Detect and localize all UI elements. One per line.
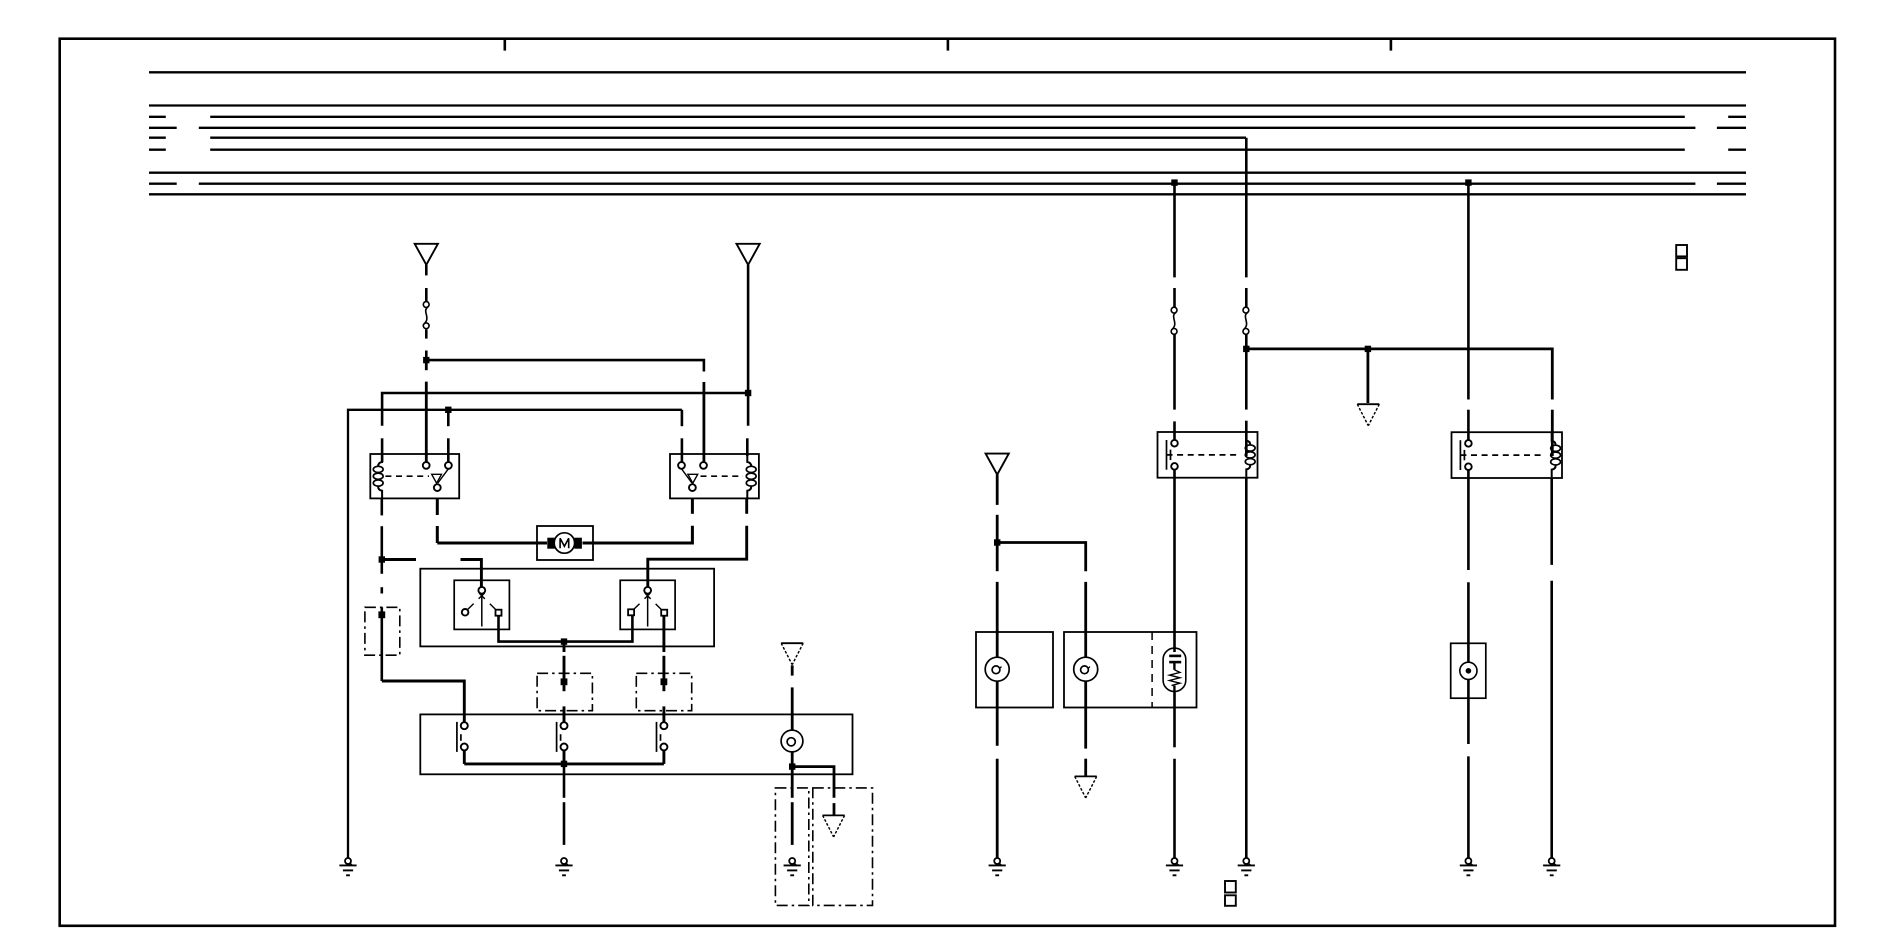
node park junction [561, 638, 567, 644]
ground G4 [989, 858, 1006, 875]
connector triangle T2 [737, 244, 760, 265]
wire junction down to relay1 common [425, 360, 428, 370]
washer level switch box [1451, 643, 1486, 698]
connector box B4 [775, 788, 808, 906]
washer switch SW3 [657, 722, 668, 752]
wire level switch to ground [1467, 680, 1470, 699]
wire coil1 to washer sw1 [382, 681, 465, 722]
fuse 2 [1171, 307, 1177, 334]
rear washer box [1064, 632, 1197, 708]
connector triangle T3 [781, 643, 803, 665]
page ref squares bottom [1225, 881, 1236, 893]
wire washer sw to ground [563, 764, 566, 798]
wire relay1 coil lead [381, 438, 384, 462]
frame tick 2 [947, 39, 950, 51]
wire T3 to intermittent lamp [791, 665, 794, 675]
bus row 8 [149, 183, 177, 185]
intermittent unit lamp [781, 730, 803, 752]
node bus tap U3 [1171, 179, 1177, 185]
washer switch SW1 [457, 722, 468, 752]
relay U1 contacts [423, 462, 430, 469]
washer switch bus [463, 751, 466, 764]
node washer feed junction [994, 539, 1000, 545]
ground G5 [1166, 858, 1183, 875]
relay U2 box [670, 454, 759, 498]
ground G2 [555, 858, 572, 875]
wire lamp down [791, 752, 794, 798]
front washer motor box [976, 632, 1053, 708]
bus row 1 [149, 71, 1746, 73]
connector triangle T4 [986, 454, 1009, 475]
node lamp junction [789, 763, 795, 769]
wire H2 relay coils feed [382, 393, 748, 426]
wire relay1 switch out [436, 498, 439, 515]
rear washer separator [1151, 632, 1153, 708]
motor M1 [554, 533, 574, 553]
relay U1 coil [373, 454, 383, 498]
relay U2 coil [746, 454, 756, 498]
wire U4 coil to ground [1550, 478, 1553, 565]
node washer bus junction [561, 761, 567, 767]
motor M1 box [537, 526, 593, 560]
relay U1 box [370, 454, 459, 498]
connector box B2 [537, 673, 592, 710]
wire bus to fuse F3 [1245, 138, 1248, 278]
node fuse1 junction [423, 357, 429, 363]
wire branch to front washer [997, 543, 1085, 572]
rear washer motor [1074, 657, 1098, 681]
wire bus to fuse F2 [1173, 184, 1176, 278]
wire park out [563, 642, 566, 652]
bus row 9 [149, 193, 1746, 195]
wire SW-B right out [662, 616, 665, 652]
wire T2 to relay2 coil [747, 265, 750, 426]
wire T4 down [996, 475, 999, 505]
ground G7 [1460, 858, 1477, 875]
wire H3 to relay2 NC [681, 410, 684, 426]
wire H3 to relay1 NC [447, 410, 450, 426]
relay U2 contacts [678, 462, 685, 469]
wire washer motor to ground [996, 681, 999, 707]
wire U4 to washer level switch [1467, 470, 1470, 570]
wire relay2 coil out [745, 498, 748, 513]
park switch SW-B [620, 580, 675, 629]
relay U3 box [1158, 432, 1258, 478]
connector arrow A2 [1075, 776, 1097, 798]
frame tick 1 [503, 39, 506, 51]
node F3 junction [1243, 346, 1249, 352]
connector B3 marker [661, 678, 668, 685]
washer level switch [1460, 662, 1477, 679]
wire junction to arrow A3 [1367, 349, 1370, 403]
wire H4 to relay U4 coil [1246, 349, 1552, 400]
wire fuse1 to junction [425, 329, 428, 338]
connector B1 marker [378, 611, 385, 618]
connector box B1 [365, 607, 400, 655]
wire to wiper switch common [382, 558, 416, 561]
fuse 1 lead [425, 265, 428, 276]
node H2-T2 junction [745, 390, 751, 396]
connector triangle T1 [415, 244, 438, 265]
wire F3 to relay U3 coil [1245, 334, 1248, 349]
wire relay1 coil out [380, 498, 383, 515]
bus row 4 [149, 127, 177, 129]
wire H1 to relay2 common [426, 360, 704, 371]
connector B2 marker [561, 678, 568, 685]
node H4 junction [1365, 346, 1371, 352]
front washer motor [985, 657, 1009, 681]
park switch internal wiring [499, 616, 633, 642]
wire F2 to relay U3 [1173, 334, 1176, 409]
wire U3 coil to ground [1245, 478, 1248, 859]
bus row 2 [149, 104, 1746, 106]
wire branch to arrow A1 [792, 767, 834, 798]
connector arrow A1 [823, 815, 845, 837]
thermal protector [1163, 648, 1186, 691]
washer switch box [420, 714, 852, 774]
wire bus to relay U4 [1467, 184, 1470, 400]
bus row 3 [149, 116, 166, 118]
frame tick 3 [1390, 39, 1393, 51]
connector arrow A3 [1357, 404, 1379, 426]
bus row 5 [149, 137, 166, 139]
wire thermal to ground [1173, 692, 1176, 748]
wire relay2 switch out [691, 498, 694, 513]
park switch box [420, 569, 714, 647]
wire motor left [437, 542, 547, 545]
bus row 6 [149, 149, 166, 151]
ground G1 [339, 858, 356, 875]
relay U4 box [1452, 432, 1563, 478]
fuse 1 [423, 302, 429, 329]
ground G8 [1543, 858, 1560, 875]
wire rear washer out [1084, 681, 1087, 707]
bus row 7 [149, 172, 1746, 174]
fuse 3 [1243, 307, 1249, 334]
wire U3 to thermal [1173, 470, 1176, 478]
ground G6 [1238, 858, 1255, 875]
node bus tap U4 [1465, 179, 1471, 185]
washer switch SW2 [557, 722, 568, 752]
node H3 junction [445, 407, 451, 413]
ground G3 [784, 858, 801, 875]
connector box B5 [813, 788, 873, 906]
node coil1 junction [379, 556, 385, 562]
wire H3 ground link [348, 410, 682, 858]
connector box B3 [636, 673, 691, 710]
page ref squares top right [1676, 245, 1687, 256]
park switch SW-A [454, 580, 509, 629]
